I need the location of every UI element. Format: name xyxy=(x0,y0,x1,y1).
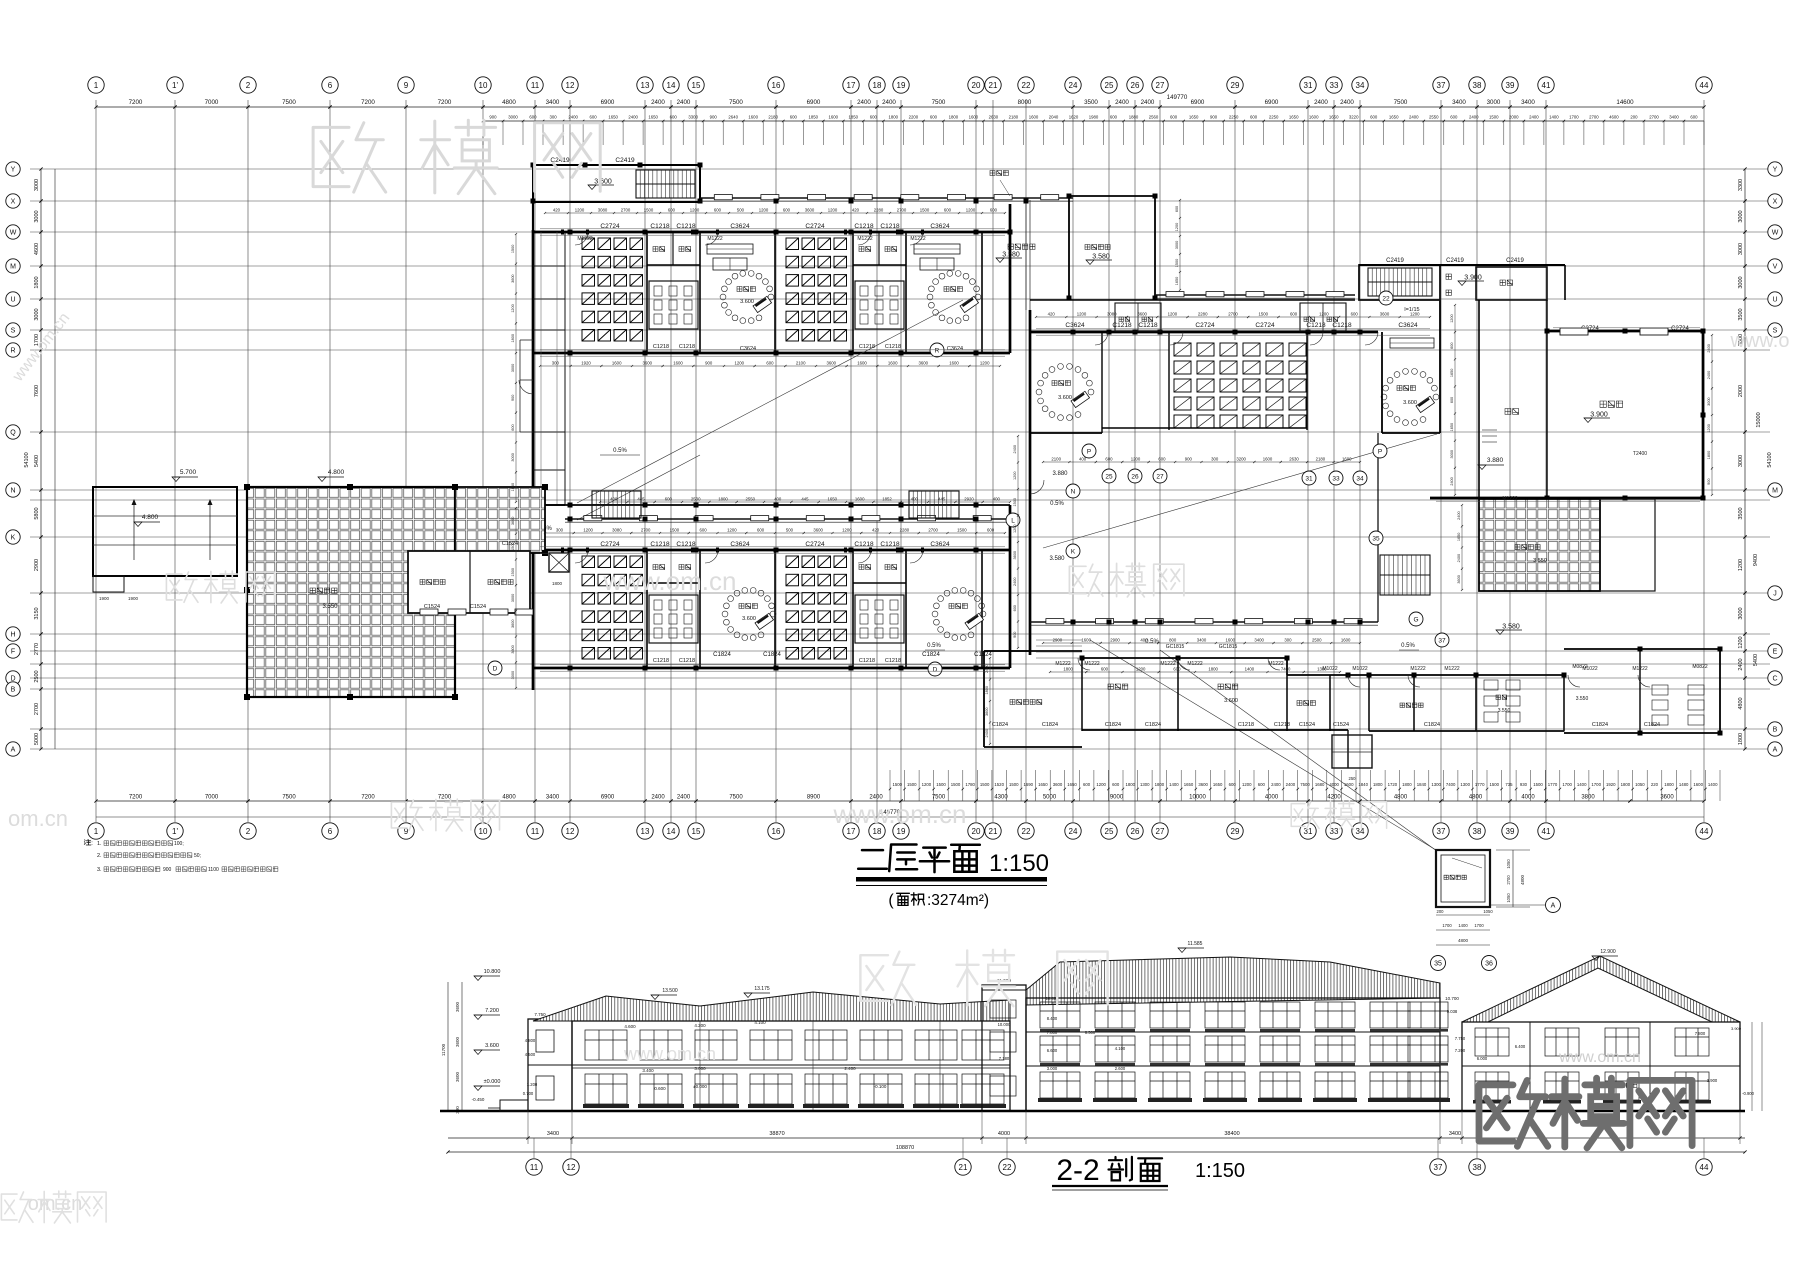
svg-text:2400: 2400 xyxy=(568,115,578,120)
svg-text:26: 26 xyxy=(1131,81,1140,90)
svg-text:300: 300 xyxy=(552,361,560,366)
SE tiled terrace xyxy=(1479,499,1600,591)
svg-text:W: W xyxy=(10,230,17,237)
svg-text:4000: 4000 xyxy=(1265,795,1279,801)
svg-text:2250: 2250 xyxy=(1269,115,1279,120)
svg-text:M1222: M1222 xyxy=(1444,666,1460,672)
svg-text:C1218: C1218 xyxy=(885,344,901,350)
interior dim row east courtyard xyxy=(1043,461,1360,463)
svg-text:3.900: 3.900 xyxy=(1590,412,1608,419)
svg-text:3000: 3000 xyxy=(1707,397,1711,405)
svg-text:26: 26 xyxy=(1131,827,1140,836)
svg-text:900: 900 xyxy=(1210,115,1218,120)
big tiled roof terrace xyxy=(247,487,455,697)
svg-text:29: 29 xyxy=(1231,81,1240,90)
svg-text:1500: 1500 xyxy=(907,782,917,787)
svg-text:1400: 1400 xyxy=(1245,667,1255,672)
svg-text:1800: 1800 xyxy=(1621,782,1631,787)
svg-text:2900: 2900 xyxy=(34,559,40,571)
svg-text:3080: 3080 xyxy=(612,528,622,533)
svg-text:600: 600 xyxy=(1110,115,1118,120)
svg-text:3.900: 3.900 xyxy=(1464,275,1482,282)
svg-text:2-2: 2-2 xyxy=(1056,1154,1099,1187)
svg-text:0.700: 0.700 xyxy=(523,1091,534,1096)
svg-text:20: 20 xyxy=(972,827,981,836)
svg-text:1600: 1600 xyxy=(748,115,758,120)
svg-text:3400: 3400 xyxy=(547,1131,559,1137)
svg-text:C1824: C1824 xyxy=(992,722,1008,728)
section: left level dims xyxy=(447,982,449,1110)
svg-text:1200: 1200 xyxy=(1136,667,1146,672)
svg-text:3.880: 3.880 xyxy=(1487,457,1504,464)
watermark bottom-left corner xyxy=(1,1192,33,1222)
svg-text:6900: 6900 xyxy=(601,795,615,801)
svg-text:2640: 2640 xyxy=(728,115,738,120)
room dividers bottom strip xyxy=(1081,658,1083,731)
detail square teacher office xyxy=(1436,850,1490,907)
svg-text:1700: 1700 xyxy=(1569,115,1579,120)
svg-text:7.200: 7.200 xyxy=(1455,1048,1466,1053)
svg-text:C1218: C1218 xyxy=(679,658,695,664)
svg-text:2700: 2700 xyxy=(1506,875,1511,885)
svg-text:2400: 2400 xyxy=(1738,658,1744,670)
svg-text:600: 600 xyxy=(1250,115,1258,120)
svg-text:2180: 2180 xyxy=(1009,115,1019,120)
svg-text:1: 1 xyxy=(94,81,99,90)
svg-text:C1824: C1824 xyxy=(713,652,731,658)
left dimension chain xyxy=(40,169,42,749)
svg-text:2700: 2700 xyxy=(1228,312,1238,317)
svg-text:6900: 6900 xyxy=(1191,99,1205,106)
svg-text:1650: 1650 xyxy=(1175,277,1179,285)
svg-text:A: A xyxy=(11,747,16,754)
svg-text:C1218: C1218 xyxy=(859,344,875,350)
svg-text:3.580: 3.580 xyxy=(1502,624,1520,631)
svg-text:1500: 1500 xyxy=(644,208,654,213)
svg-text:300: 300 xyxy=(1211,457,1219,462)
svg-text:4800: 4800 xyxy=(502,795,516,801)
svg-text:1850: 1850 xyxy=(849,115,859,120)
svg-text:600: 600 xyxy=(1013,605,1017,611)
svg-text:600: 600 xyxy=(757,528,765,533)
svg-text:2400: 2400 xyxy=(1013,578,1017,586)
watermark outline top-left xyxy=(313,123,386,192)
ramp arrows xyxy=(133,500,135,560)
svg-text:3.900: 3.900 xyxy=(1731,1026,1742,1031)
svg-text:2630: 2630 xyxy=(989,115,999,120)
svg-text:900: 900 xyxy=(1707,478,1711,484)
svg-text:2400: 2400 xyxy=(882,99,896,106)
svg-text:1500: 1500 xyxy=(957,528,967,533)
svg-text:7500: 7500 xyxy=(1394,99,1408,106)
svg-text:600: 600 xyxy=(714,208,722,213)
svg-text:13.175: 13.175 xyxy=(754,986,770,992)
svg-text:9.038: 9.038 xyxy=(1447,1009,1458,1014)
stage 舞台 xyxy=(1478,300,1480,498)
svg-text:3.600: 3.600 xyxy=(740,299,754,305)
svg-text:15000: 15000 xyxy=(1756,412,1762,427)
svg-text:7200: 7200 xyxy=(129,99,143,106)
shelf row east xyxy=(1390,338,1434,348)
svg-text:2180: 2180 xyxy=(1316,457,1326,462)
svg-text:149770: 149770 xyxy=(1167,94,1188,101)
svg-text:1850: 1850 xyxy=(809,115,819,120)
section right body xyxy=(1462,1022,1740,1111)
hall interior walls xyxy=(1168,332,1170,430)
svg-text:10.700: 10.700 xyxy=(1445,996,1459,1001)
svg-text:3400: 3400 xyxy=(546,795,560,801)
svg-text:1400: 1400 xyxy=(1708,782,1718,787)
svg-text:2: 2 xyxy=(246,827,251,836)
svg-text:14: 14 xyxy=(667,827,676,836)
small step below ramp xyxy=(93,576,124,592)
svg-text::: : xyxy=(91,840,93,847)
vertical dim chain between buildings xyxy=(1017,436,1019,648)
svg-text:3600: 3600 xyxy=(827,361,837,366)
svg-text:7.800: 7.800 xyxy=(1047,1030,1058,1035)
svg-text:445: 445 xyxy=(801,497,809,502)
svg-text:1500: 1500 xyxy=(1490,782,1500,787)
svg-text:600: 600 xyxy=(987,528,995,533)
activity rooms north circles xyxy=(720,271,774,324)
svg-text:W: W xyxy=(1772,230,1779,237)
svg-text:1600: 1600 xyxy=(857,361,867,366)
grid lines vertical xyxy=(96,100,1704,822)
svg-text:1840: 1840 xyxy=(1358,782,1368,787)
svg-text:7500: 7500 xyxy=(1300,782,1310,787)
svg-text:1650: 1650 xyxy=(511,483,515,491)
classroom unit walls north xyxy=(646,232,648,353)
svg-text:3.600: 3.600 xyxy=(742,616,756,622)
svg-text:3080: 3080 xyxy=(598,208,608,213)
section left building roof xyxy=(533,992,1010,1021)
svg-text:6900: 6900 xyxy=(1265,99,1279,106)
shelf symbols activity rooms xyxy=(707,244,753,254)
east-right activity room walls xyxy=(1381,332,1383,433)
dance room 舞蹈室 xyxy=(1547,330,1703,333)
svg-text:GC1815: GC1815 xyxy=(1166,644,1185,650)
svg-text:3000: 3000 xyxy=(1738,455,1744,467)
svg-text:3600: 3600 xyxy=(805,208,815,213)
svg-text:14600: 14600 xyxy=(1616,99,1634,106)
svg-text:18: 18 xyxy=(873,81,882,90)
svg-text:3400: 3400 xyxy=(1197,638,1207,643)
svg-text:2.: 2. xyxy=(97,853,102,859)
svg-text:4.800: 4.800 xyxy=(328,469,345,476)
ramp block west xyxy=(93,487,237,576)
svg-text:3800: 3800 xyxy=(1581,795,1595,801)
svg-text:41: 41 xyxy=(1542,827,1551,836)
svg-text:1200: 1200 xyxy=(922,782,932,787)
svg-text:13: 13 xyxy=(641,81,650,90)
svg-text:600: 600 xyxy=(670,115,678,120)
svg-text:C1824: C1824 xyxy=(1424,722,1440,728)
svg-text:Y: Y xyxy=(11,167,16,174)
stair south-east xyxy=(909,491,959,518)
svg-text:1600: 1600 xyxy=(855,497,865,502)
svg-text:13: 13 xyxy=(641,827,650,836)
svg-text:250: 250 xyxy=(1349,776,1357,781)
svg-text:600: 600 xyxy=(766,361,774,366)
svg-text:10: 10 xyxy=(479,827,488,836)
svg-text:1900: 1900 xyxy=(99,596,110,601)
svg-text:M1222: M1222 xyxy=(910,236,926,242)
joint label 变形缝 xyxy=(990,171,1008,176)
svg-text:6.500: 6.500 xyxy=(1085,1030,1096,1035)
bottom strip outer walls xyxy=(984,650,1082,652)
svg-text:1400: 1400 xyxy=(1169,782,1179,787)
watermark center-bottom plan xyxy=(860,952,916,1005)
svg-text:6.000: 6.000 xyxy=(1477,1056,1488,1061)
svg-text:3500: 3500 xyxy=(1738,308,1744,320)
svg-text:C1824: C1824 xyxy=(1592,722,1608,728)
svg-text:1800: 1800 xyxy=(1063,667,1073,672)
svg-text:B: B xyxy=(1773,727,1778,734)
svg-text:1.200: 1.200 xyxy=(527,1082,538,1087)
svg-text:12: 12 xyxy=(566,827,575,836)
svg-text:27: 27 xyxy=(1156,827,1165,836)
svg-text:11: 11 xyxy=(531,827,540,836)
windows dance room top xyxy=(1560,328,1588,335)
svg-text:3000: 3000 xyxy=(1450,450,1454,458)
svg-text:3200: 3200 xyxy=(1236,457,1246,462)
svg-text:38: 38 xyxy=(1473,827,1482,836)
svg-text:1200: 1200 xyxy=(735,361,745,366)
svg-text:600: 600 xyxy=(511,424,515,430)
svg-text:7500: 7500 xyxy=(729,99,743,106)
svg-text:3.600: 3.600 xyxy=(1058,395,1072,401)
svg-text:7500: 7500 xyxy=(282,99,296,106)
svg-text:3.000: 3.000 xyxy=(694,1066,706,1071)
svg-text:3400: 3400 xyxy=(546,99,560,106)
svg-text:www.o: www.o xyxy=(1730,330,1790,352)
svg-text:om.cn: om.cn xyxy=(8,806,68,831)
door jambs west xyxy=(561,230,924,553)
svg-text:3600: 3600 xyxy=(919,361,929,366)
svg-text:4300: 4300 xyxy=(994,795,1008,801)
svg-text:1100: 1100 xyxy=(208,867,219,873)
svg-text:600: 600 xyxy=(1101,667,1109,672)
svg-text:3600: 3600 xyxy=(1380,312,1390,317)
svg-text:50;: 50; xyxy=(194,853,201,859)
svg-text:1200: 1200 xyxy=(1013,472,1017,480)
svg-text:4800: 4800 xyxy=(1469,795,1483,801)
svg-text:2400: 2400 xyxy=(1286,782,1296,787)
svg-text:1050: 1050 xyxy=(1506,893,1511,903)
svg-text:2.600: 2.600 xyxy=(1115,1066,1126,1071)
svg-text:16: 16 xyxy=(772,81,781,90)
svg-text:3000: 3000 xyxy=(511,671,515,679)
svg-text:0.5%: 0.5% xyxy=(927,643,941,649)
svg-text:420: 420 xyxy=(553,208,561,213)
svg-text:2900: 2900 xyxy=(1110,638,1120,643)
svg-text:2400: 2400 xyxy=(1013,445,1017,453)
svg-text:3600: 3600 xyxy=(813,528,823,533)
svg-text:22: 22 xyxy=(1022,81,1031,90)
section right building roof xyxy=(1462,956,1740,1022)
svg-text:1650: 1650 xyxy=(1450,369,1454,377)
svg-text:4800: 4800 xyxy=(1520,874,1525,885)
svg-text:C1824: C1824 xyxy=(1105,722,1121,728)
svg-text:1700: 1700 xyxy=(1442,923,1452,928)
svg-text:C2419: C2419 xyxy=(1386,258,1404,264)
NE block top wall xyxy=(1359,264,1565,266)
svg-text:200: 200 xyxy=(1630,115,1638,120)
NE corridor railing xyxy=(1155,294,1355,296)
svg-text:M: M xyxy=(1772,488,1778,495)
svg-text:2700: 2700 xyxy=(1649,115,1659,120)
grid bubbles top row xyxy=(88,77,104,93)
svg-text:1620: 1620 xyxy=(1069,115,1079,120)
svg-text:2: 2 xyxy=(246,81,251,90)
svg-text:13.500: 13.500 xyxy=(662,988,678,994)
svg-text:3000: 3000 xyxy=(1487,99,1501,106)
svg-text:A: A xyxy=(1773,747,1778,754)
interior dim row south corridor xyxy=(600,501,1010,503)
svg-text:C2419: C2419 xyxy=(1446,258,1464,264)
svg-text:1400: 1400 xyxy=(1577,782,1587,787)
svg-text:600: 600 xyxy=(529,115,537,120)
svg-text:2630: 2630 xyxy=(1289,457,1299,462)
svg-text:35: 35 xyxy=(1434,961,1442,968)
svg-text:34: 34 xyxy=(1356,827,1365,836)
svg-text:2200: 2200 xyxy=(909,115,919,120)
svg-text:1800: 1800 xyxy=(1208,667,1218,672)
svg-text:7.750: 7.750 xyxy=(1455,1036,1466,1041)
porch notch xyxy=(1332,735,1372,768)
svg-text:8000: 8000 xyxy=(1018,99,1032,106)
svg-text:400: 400 xyxy=(610,497,618,502)
svg-text:38: 38 xyxy=(1473,1163,1482,1172)
svg-text:37: 37 xyxy=(1434,1163,1443,1172)
svg-text:1920: 1920 xyxy=(1606,782,1616,787)
svg-text:C1218: C1218 xyxy=(679,344,695,350)
svg-text:C1524: C1524 xyxy=(470,604,486,610)
svg-text:R: R xyxy=(10,348,15,355)
svg-text:10.000: 10.000 xyxy=(998,1022,1011,1027)
svg-text:220: 220 xyxy=(1651,782,1659,787)
svg-text:C3624: C3624 xyxy=(947,346,963,352)
svg-text:31: 31 xyxy=(1304,827,1313,836)
svg-text:900: 900 xyxy=(163,867,172,873)
svg-text:6: 6 xyxy=(328,81,333,90)
west wing corridor inner lines xyxy=(540,232,542,505)
svg-text:C1218: C1218 xyxy=(1274,722,1290,728)
svg-text:10.800: 10.800 xyxy=(484,969,501,975)
svg-text:1500: 1500 xyxy=(511,542,515,550)
svg-text:1': 1' xyxy=(172,827,178,836)
stair NW xyxy=(636,170,695,198)
NE stair block xyxy=(1359,265,1440,300)
svg-text:C1218: C1218 xyxy=(1238,722,1254,728)
svg-text:1200: 1200 xyxy=(1410,312,1420,317)
svg-text:900: 900 xyxy=(705,361,713,366)
NE-west room of east building xyxy=(1069,195,1155,197)
svg-text:C1218: C1218 xyxy=(1332,322,1352,329)
interior dim row east corridor xyxy=(1043,642,1360,644)
svg-text:3150: 3150 xyxy=(34,607,40,619)
svg-text:5000: 5000 xyxy=(34,733,40,745)
svg-text:N: N xyxy=(1071,488,1076,495)
section left windows lower row xyxy=(585,1074,1004,1104)
svg-text:2250: 2250 xyxy=(1229,115,1239,120)
svg-text:3600: 3600 xyxy=(511,517,515,525)
svg-text:5.700: 5.700 xyxy=(180,469,197,476)
svg-text:4.100: 4.100 xyxy=(754,1020,766,1025)
svg-text:1:150: 1:150 xyxy=(1195,1160,1245,1182)
svg-text:44: 44 xyxy=(1700,81,1709,90)
svg-text:4.500: 4.500 xyxy=(525,1052,536,1057)
svg-text:9000: 9000 xyxy=(1110,795,1124,801)
svg-text:2920: 2920 xyxy=(964,497,974,502)
svg-text:1690: 1690 xyxy=(1024,782,1034,787)
svg-text:www.om.cn: www.om.cn xyxy=(833,799,967,829)
svg-text:2400: 2400 xyxy=(1457,554,1461,562)
svg-text:29: 29 xyxy=(1231,827,1240,836)
svg-text:600: 600 xyxy=(990,208,998,213)
svg-text:3600: 3600 xyxy=(511,645,515,653)
svg-text:2900: 2900 xyxy=(1053,638,1063,643)
svg-text:3600: 3600 xyxy=(1013,551,1017,559)
svg-text:C2419: C2419 xyxy=(615,157,635,164)
svg-text:6.400: 6.400 xyxy=(1515,1044,1526,1049)
svg-text:B: B xyxy=(11,687,16,694)
svg-text:37: 37 xyxy=(1437,827,1446,836)
svg-text:3600: 3600 xyxy=(643,361,653,366)
svg-text:300: 300 xyxy=(556,528,564,533)
svg-text:600: 600 xyxy=(1450,115,1458,120)
svg-text:1650: 1650 xyxy=(1450,423,1454,431)
svg-text:1600: 1600 xyxy=(1341,638,1351,643)
svg-text:420: 420 xyxy=(872,528,880,533)
svg-text:1770: 1770 xyxy=(1548,782,1558,787)
vertical dim chain dance right xyxy=(1711,335,1713,495)
section left windows upper row xyxy=(585,1030,1004,1060)
svg-text:0.5%: 0.5% xyxy=(1401,643,1415,649)
svg-text:900: 900 xyxy=(1013,632,1017,638)
svg-text:3220: 3220 xyxy=(1349,115,1359,120)
svg-text:1200: 1200 xyxy=(1013,525,1017,533)
svg-text:3.550: 3.550 xyxy=(1533,558,1547,564)
west south block corridor + railing xyxy=(533,504,1010,506)
svg-text:G: G xyxy=(1413,616,1418,623)
svg-text:600: 600 xyxy=(783,208,791,213)
svg-text:1650: 1650 xyxy=(608,115,618,120)
svg-text:4800: 4800 xyxy=(1394,795,1408,801)
svg-text:300: 300 xyxy=(1284,638,1292,643)
svg-text:3000: 3000 xyxy=(1738,276,1744,288)
room labels bottom strip xyxy=(1010,700,1042,705)
svg-text:38: 38 xyxy=(1473,81,1482,90)
bed grid hall xyxy=(1169,340,1307,430)
classroom unit walls south xyxy=(646,550,648,668)
svg-text:2.400: 2.400 xyxy=(844,1066,856,1071)
svg-text:1200: 1200 xyxy=(1738,636,1744,648)
svg-text:4600: 4600 xyxy=(1609,115,1619,120)
svg-text:C1218: C1218 xyxy=(885,658,901,664)
svg-text:1200: 1200 xyxy=(1319,312,1329,317)
svg-text:1500: 1500 xyxy=(1489,115,1499,120)
svg-text:600: 600 xyxy=(590,115,598,120)
window double lines main walls xyxy=(540,228,1005,230)
svg-text:1300: 1300 xyxy=(1317,667,1327,672)
svg-text:1852: 1852 xyxy=(882,497,892,502)
svg-text:1200: 1200 xyxy=(1175,223,1179,231)
svg-text:2400: 2400 xyxy=(1707,371,1711,379)
svg-text:4.800: 4.800 xyxy=(142,514,159,521)
svg-text:2700: 2700 xyxy=(34,703,40,715)
svg-text:1600: 1600 xyxy=(969,115,979,120)
